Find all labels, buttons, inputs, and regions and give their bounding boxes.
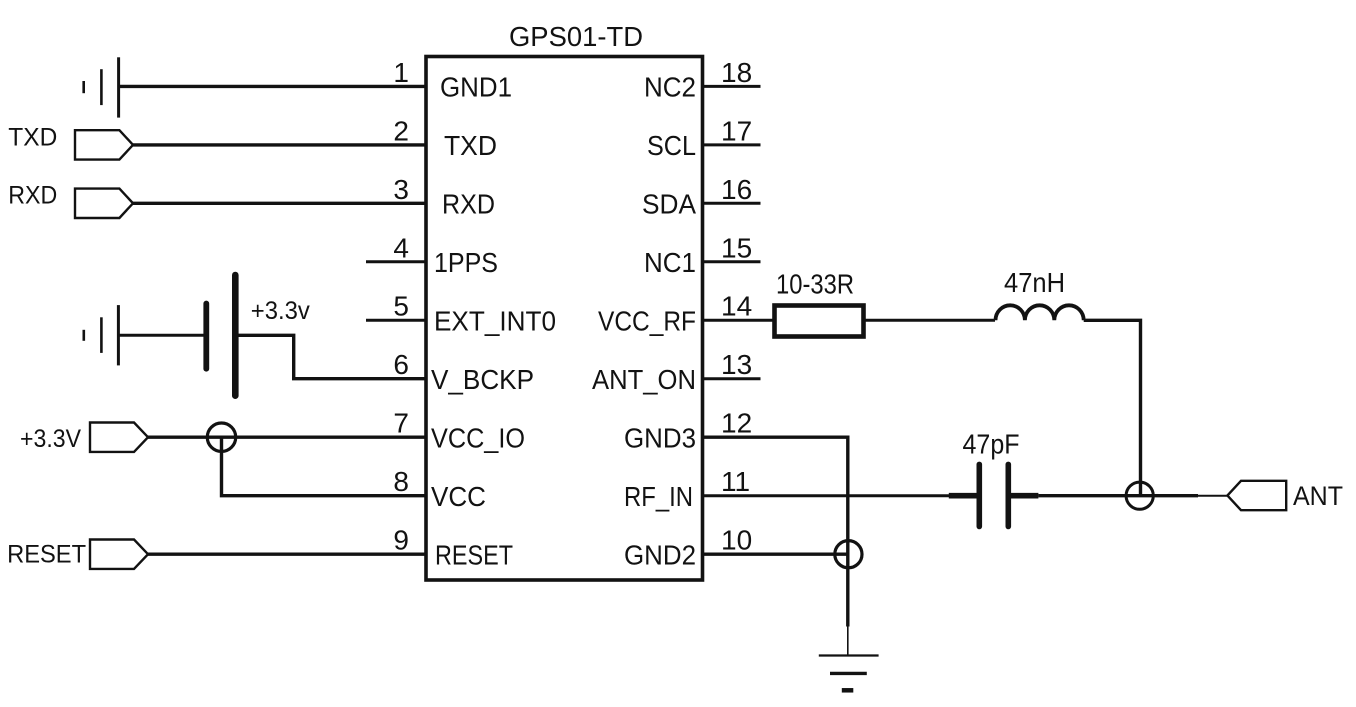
wire pin16 SDA stub bbox=[703, 202, 761, 205]
svg-text:13: 13 bbox=[721, 349, 752, 380]
wire pin9 RESET bbox=[148, 553, 426, 556]
svg-text:NC1: NC1 bbox=[644, 247, 696, 278]
pin numbers left (1-9) bbox=[393, 57, 409, 556]
svg-text:+3.3v: +3.3v bbox=[251, 297, 310, 325]
wire pin11 RF_IN to capacitor C1 bbox=[703, 494, 950, 497]
wire pin5 EXT_INT0 stub bbox=[366, 319, 426, 322]
svg-text:2: 2 bbox=[393, 115, 409, 146]
wire resistor R1 to inductor L1 bbox=[864, 319, 996, 322]
svg-text:V_BCKP: V_BCKP bbox=[431, 364, 534, 395]
svg-text:VCC_IO: VCC_IO bbox=[431, 423, 525, 454]
wire pin3 RXD bbox=[133, 202, 426, 205]
resistor R1 10-33R body bbox=[775, 306, 864, 337]
wire pin4 1PPS stub bbox=[366, 260, 426, 263]
wire pin18 NC2 stub bbox=[703, 85, 761, 88]
pin labels right inside IC bbox=[592, 72, 696, 571]
wire ground lead thin bbox=[847, 627, 849, 656]
svg-text:47pF: 47pF bbox=[963, 429, 1020, 460]
svg-text:14: 14 bbox=[721, 291, 752, 322]
svg-text:TXD: TXD bbox=[444, 130, 497, 161]
wire inductor L1 to RF node bbox=[1084, 320, 1141, 495]
svg-text:17: 17 bbox=[721, 115, 752, 146]
ground G3 (bottom) bbox=[819, 656, 879, 691]
wire pin1 GND1 to ground G1 bbox=[119, 85, 426, 88]
wire ANT node to flag (thin) bbox=[1198, 495, 1227, 497]
svg-text:47nH: 47nH bbox=[1004, 267, 1065, 298]
wire capacitor C1 to ANT node bbox=[1038, 494, 1198, 497]
wire pin14 VCC_RF to resistor R1 bbox=[703, 319, 775, 322]
battery BT1 positive plate bbox=[232, 275, 239, 396]
wire junction vertical to pin8 VCC bbox=[222, 437, 427, 496]
flag +3.3V connector bbox=[90, 423, 148, 452]
wire battery positive to pin6 V_BCKP bbox=[235, 335, 426, 378]
battery BT1 negative plate bbox=[203, 304, 209, 369]
svg-text:9: 9 bbox=[393, 525, 409, 556]
svg-text:VCC: VCC bbox=[431, 481, 486, 512]
svg-text:SDA: SDA bbox=[642, 189, 696, 220]
wire ground G2 to battery negative bbox=[118, 334, 206, 337]
svg-text:RXD: RXD bbox=[8, 182, 57, 210]
svg-text:4: 4 bbox=[393, 232, 409, 263]
svg-text:GND3: GND3 bbox=[624, 423, 696, 454]
svg-text:TXD: TXD bbox=[8, 123, 57, 151]
wire pin15 NC1 stub bbox=[703, 260, 761, 263]
wire pin13 ANT_ON stub bbox=[703, 377, 761, 380]
wire pin2 TXD bbox=[133, 143, 426, 146]
pin labels left inside IC bbox=[431, 72, 556, 571]
svg-text:10-33R: 10-33R bbox=[776, 269, 854, 300]
inductor L1 47nH bbox=[996, 305, 1084, 320]
capacitor C1 right lead bbox=[1008, 493, 1038, 499]
svg-text:RESET: RESET bbox=[435, 540, 513, 571]
pin numbers right (10-18) bbox=[721, 57, 752, 556]
wire pin17 SCL stub bbox=[703, 143, 761, 146]
node junction circle (GND2) bbox=[835, 541, 862, 568]
svg-text:GPS01-TD: GPS01-TD bbox=[509, 21, 643, 52]
node junction circle (+3.3V) bbox=[207, 423, 235, 451]
IC U1 GPS01-TD body bbox=[426, 57, 703, 581]
svg-text:+3.3V: +3.3V bbox=[20, 425, 81, 453]
capacitor C1 right plate bbox=[1005, 464, 1011, 526]
capacitor C1 left plate bbox=[976, 464, 982, 526]
svg-text:5: 5 bbox=[393, 291, 409, 322]
wire pin12 GND3 to ground net bbox=[703, 437, 848, 626]
flag RXD connector bbox=[75, 189, 133, 218]
wire pin10 GND2 to junction bbox=[703, 553, 849, 556]
flag TXD connector bbox=[75, 130, 133, 159]
svg-text:6: 6 bbox=[393, 349, 409, 380]
svg-text:10: 10 bbox=[721, 525, 752, 556]
svg-text:RESET: RESET bbox=[7, 540, 86, 568]
ground G2 (battery, rotated) bbox=[84, 305, 119, 365]
svg-text:ANT: ANT bbox=[1293, 481, 1343, 511]
svg-text:SCL: SCL bbox=[647, 130, 696, 161]
svg-text:12: 12 bbox=[721, 408, 752, 439]
svg-text:ANT_ON: ANT_ON bbox=[592, 364, 696, 395]
wire pin7 VCC_IO bbox=[148, 436, 426, 439]
svg-text:RF_IN: RF_IN bbox=[624, 481, 693, 512]
svg-text:11: 11 bbox=[721, 466, 750, 497]
svg-text:RXD: RXD bbox=[442, 189, 495, 220]
svg-text:VCC_RF: VCC_RF bbox=[598, 306, 696, 337]
svg-text:1PPS: 1PPS bbox=[434, 247, 498, 278]
svg-text:1: 1 bbox=[393, 57, 409, 88]
svg-text:GND2: GND2 bbox=[624, 540, 696, 571]
svg-text:GND1: GND1 bbox=[440, 72, 512, 103]
node junction circle (ANT / RF) bbox=[1126, 482, 1153, 509]
flag ANT connector bbox=[1227, 481, 1286, 510]
svg-text:8: 8 bbox=[393, 466, 409, 497]
flag RESET connector bbox=[90, 540, 148, 569]
svg-text:15: 15 bbox=[721, 232, 752, 263]
svg-text:3: 3 bbox=[393, 174, 409, 205]
svg-text:16: 16 bbox=[721, 174, 752, 205]
capacitor C1 left lead bbox=[949, 493, 980, 499]
svg-text:NC2: NC2 bbox=[644, 72, 696, 103]
svg-text:18: 18 bbox=[721, 57, 752, 88]
ground G1 (pin 1, rotated) bbox=[84, 57, 119, 117]
svg-text:EXT_INT0: EXT_INT0 bbox=[434, 306, 556, 337]
svg-text:7: 7 bbox=[393, 408, 409, 439]
